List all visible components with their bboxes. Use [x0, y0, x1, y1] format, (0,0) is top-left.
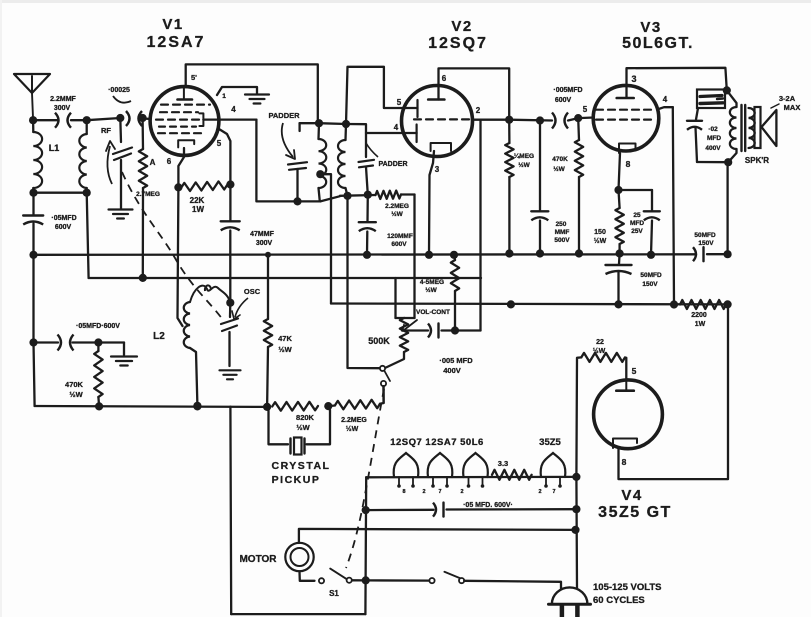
label PADDER IF [366, 143, 408, 168]
dashed switch link [346, 389, 384, 568]
wiper arrow [403, 320, 418, 331]
capacitor .05MFD 600V left [34, 335, 99, 351]
label 4.5MEG halfW [420, 279, 444, 294]
node coil2 bottom [83, 189, 91, 197]
heater 12SQ7 pins [397, 477, 415, 488]
crystal element [291, 438, 305, 455]
node 50MFD bus3 [614, 300, 622, 308]
svg-text:L2: L2 [153, 331, 165, 342]
label tube heaters [390, 437, 484, 448]
wire cap to node [442, 329, 456, 331]
node 25MFD bus1 [647, 251, 655, 259]
resistor 470K V3grid [575, 118, 583, 253]
node quarterMEG bus1 [505, 249, 513, 257]
trimmer RF [106, 118, 132, 209]
label 12SQ7 [428, 35, 488, 52]
svg-text:PADDER: PADDER [268, 111, 300, 120]
wire line2 right [447, 508, 577, 511]
resistor A 2.7MEG [139, 118, 147, 278]
electrode V3 plate [617, 97, 634, 100]
wire IF bottom [340, 194, 376, 197]
label 3-2A MAX [771, 94, 800, 112]
potentiometer 500K [400, 318, 408, 352]
wire tank top to IF [319, 122, 346, 125]
svg-text:5: 5 [217, 139, 222, 148]
wire cap to V1 grid [141, 117, 151, 120]
wire cap to V3 grid [568, 118, 594, 121]
wire V3 pin4 lead [659, 107, 673, 109]
label L2 [153, 331, 165, 342]
node 45MEG bus1 [450, 251, 458, 259]
ground RF trimmer [109, 210, 133, 219]
label pin 6 V2 [442, 74, 447, 83]
wire bus2 AVC [89, 277, 481, 279]
svg-text:35Z5 GT: 35Z5 GT [598, 504, 672, 521]
label pin 2 V2 [476, 106, 481, 115]
label 820K halfW [296, 413, 315, 432]
label pin 8 V3 [626, 159, 631, 169]
label .05MFD 600V line [463, 502, 513, 509]
svg-text:¼MEG: ¼MEG [514, 152, 534, 160]
node V2 cathode bus1 [425, 251, 433, 259]
svg-text:2: 2 [538, 489, 541, 495]
inductor OT secondary [749, 108, 755, 148]
resistor 470K left [94, 343, 102, 407]
label pin 6 [167, 157, 172, 166]
svg-text:·005MFD: ·005MFD [553, 87, 582, 94]
node 47K bottom [263, 403, 271, 411]
svg-text:2: 2 [476, 106, 481, 115]
svg-text:3: 3 [631, 74, 636, 84]
trimmer IF padder [346, 124, 374, 195]
node line2 right [572, 505, 580, 513]
capacitor 47MMF [221, 185, 240, 303]
svg-text:50MFD: 50MFD [694, 232, 716, 239]
svg-text:1W: 1W [695, 321, 706, 328]
svg-text:6: 6 [442, 74, 447, 83]
wire to switch2 [366, 579, 430, 581]
svg-text:VOL-CONT: VOL-CONT [416, 309, 450, 316]
label .005MFD 400V [439, 356, 473, 375]
svg-text:S1: S1 [329, 589, 339, 598]
label PICKUP [272, 474, 321, 486]
wire pin4 route [256, 120, 320, 202]
label .05MFD 600V [51, 215, 76, 231]
node V1 cathode junction [174, 183, 182, 191]
capacitor 25MFD 25V [644, 190, 660, 255]
switch volume lugs [380, 352, 404, 403]
label L1 [49, 143, 60, 153]
label 47K halfW [278, 334, 292, 354]
node bus3 right [724, 300, 732, 308]
wire bus3 B-plus [331, 302, 728, 305]
switch S1 lug1 [319, 578, 324, 583]
label 2.2MEG phono [341, 417, 367, 433]
node 250MMF bus1 [536, 249, 544, 257]
electrode V2 cathode [431, 143, 451, 151]
svg-text:12SQ7 12SA7 50L6: 12SQ7 12SA7 50L6 [390, 437, 484, 448]
wire to RF trimmer [87, 118, 121, 120]
node AVC junction [139, 274, 147, 282]
label pin 3 V3 [631, 74, 636, 84]
grid dashes V1 row5 [158, 132, 205, 134]
electrode V1 plate [178, 87, 193, 100]
node IF sec bottom [343, 192, 351, 200]
label 2.2MEG halfW [385, 203, 409, 218]
electrode V4 plate [616, 381, 634, 391]
node S1 junction [362, 576, 370, 584]
svg-text:7: 7 [552, 489, 555, 495]
node line2 left [362, 506, 370, 514]
svg-text:V4: V4 [621, 487, 642, 504]
svg-text:·05MFD: ·05MFD [51, 215, 76, 222]
inductor L2 [184, 302, 198, 405]
wire V4 plate up [625, 358, 626, 381]
heater 35Z5 pins [544, 477, 562, 488]
label pin 4 V2 [394, 123, 399, 132]
svg-text:22K: 22K [190, 196, 205, 205]
label pin 8 V4 [622, 457, 627, 467]
label 120MMF 600V [387, 233, 413, 248]
label 50MFD 150V upper [694, 232, 716, 247]
resistor 22K [182, 181, 228, 191]
label 22 halfW [593, 339, 606, 355]
svg-text:47MMF: 47MMF [250, 231, 274, 238]
svg-text:2.7MEG: 2.7MEG [136, 191, 160, 198]
label V4 [621, 487, 642, 504]
svg-text:PADDER: PADDER [378, 161, 407, 168]
node 470K bus1 [575, 249, 583, 257]
svg-text:2.2MEG: 2.2MEG [341, 417, 367, 424]
wire bus2 to pot [396, 278, 415, 318]
svg-text:22: 22 [596, 339, 604, 346]
node 820K right [324, 402, 332, 410]
wire switch stem [382, 386, 384, 403]
wire cathode to 25MFD [619, 189, 653, 191]
trimmer padder osc plates [288, 162, 307, 201]
inductor L1 secondary [79, 120, 86, 193]
label CRYSTAL [272, 460, 331, 472]
svg-text:½W: ½W [278, 345, 292, 354]
label V2 [451, 18, 472, 35]
capacitor .005MFD 400V coupling [428, 324, 439, 338]
switch on-off blade [444, 572, 462, 579]
switch S1 blade [330, 569, 346, 579]
trimmer padder osc arrow [282, 123, 295, 159]
node L2 bus [193, 402, 201, 410]
wire V1 pin1 to ground [217, 87, 257, 95]
capacitor .05MFD 600V line [433, 503, 444, 517]
svg-text:25V: 25V [631, 228, 643, 235]
label pin 5 V2 [397, 98, 402, 107]
wire node to diode line [455, 329, 481, 331]
svg-text:500V: 500V [554, 237, 570, 244]
svg-text:8: 8 [622, 457, 627, 467]
grid dashes V2 [414, 118, 470, 120]
node bus1 left end [29, 251, 37, 259]
label V1 [162, 16, 183, 33]
wire V1 plate to top [186, 64, 318, 123]
label pin 4 [231, 105, 236, 114]
wire V3 plate route [627, 68, 727, 97]
svg-text:A: A [150, 158, 156, 167]
trimmer osc [221, 303, 238, 366]
wire IF bottom to vol switch [348, 196, 380, 368]
electrode V1 cathode [178, 140, 194, 147]
svg-text:OSC: OSC [244, 287, 261, 296]
node 150 bus1 [616, 249, 624, 257]
label .005MFD 600V [553, 87, 582, 104]
wire heater bus [366, 476, 576, 479]
resistor 820K [272, 402, 318, 411]
node L1 bottom [29, 189, 37, 197]
grid dashes V1 row4 [159, 125, 196, 127]
wire OT to bus [726, 162, 728, 254]
svg-text:PICKUP: PICKUP [272, 474, 321, 486]
label 25MFD 25V [630, 212, 644, 235]
speaker [755, 107, 777, 148]
svg-text:MAX: MAX [784, 103, 801, 112]
switch S1 lug2 [347, 578, 352, 583]
svg-text:½W: ½W [69, 390, 83, 399]
node 470K bottom [95, 402, 103, 410]
wire bus1 B-minus [34, 253, 697, 256]
wire diode branch down [479, 120, 481, 331]
label 50L6GT [622, 35, 694, 52]
label 2200 1W [691, 312, 707, 328]
label RF [101, 126, 111, 135]
ground osc trimmer [220, 370, 241, 379]
node 120MMF top [364, 191, 372, 199]
node IF sec top [342, 120, 350, 128]
label gimmick [108, 87, 131, 103]
wire line2 [366, 509, 434, 512]
svg-text:2.2MEG: 2.2MEG [385, 203, 409, 210]
svg-text:½W: ½W [425, 286, 437, 294]
wire V3 grid2 down [673, 107, 674, 304]
wire left column down [34, 255, 35, 406]
label .02MFD 400V [705, 126, 721, 152]
node coupling junction [451, 326, 459, 334]
svg-text:·05MFD·600V: ·05MFD·600V [76, 323, 120, 330]
svg-text:·005 MFD: ·005 MFD [439, 356, 473, 365]
node V3 grid [574, 114, 582, 122]
svg-text:250: 250 [556, 221, 567, 228]
resistor 47K [264, 255, 272, 407]
svg-text:3.3: 3.3 [498, 459, 508, 468]
svg-text:470K: 470K [552, 156, 568, 163]
label pin 1 [222, 93, 226, 100]
svg-text:8: 8 [402, 489, 405, 495]
wire V1 pin5 lead [219, 129, 230, 185]
svg-text:½W: ½W [553, 165, 565, 173]
svg-text:·05 MFD. 600V·: ·05 MFD. 600V· [463, 502, 513, 509]
wire bottom return [231, 613, 365, 615]
wire right power vertical [575, 477, 578, 588]
wire V1 pin4 lead [203, 118, 256, 120]
antenna [14, 74, 50, 120]
label 150 halfW [594, 229, 607, 245]
label VOL-CONT [416, 309, 450, 316]
label 2.2MMF 300V [50, 96, 76, 112]
svg-text:RF: RF [101, 126, 111, 135]
node 47K top [265, 252, 271, 258]
label PADDER osc [268, 111, 300, 120]
svg-text:105-125 VOLTS: 105-125 VOLTS [593, 582, 661, 593]
heater pin digits [402, 489, 555, 495]
wire S1 to node [352, 579, 366, 581]
ground detector [111, 357, 137, 366]
svg-text:V1: V1 [162, 16, 183, 33]
svg-text:4: 4 [231, 105, 236, 114]
electrode V4 cathode [613, 439, 637, 449]
wire crystal branch down [229, 407, 232, 614]
svg-text:25: 25 [633, 212, 641, 219]
svg-text:MFD: MFD [630, 220, 644, 227]
svg-text:1: 1 [222, 93, 226, 100]
wire V1 cathode down [178, 187, 183, 326]
svg-text:2200: 2200 [691, 312, 707, 319]
wire V1 cathode lead [178, 148, 184, 187]
wire V2 pin4 lead [366, 132, 417, 134]
wire phono bus [35, 405, 268, 408]
node bus1 right [724, 250, 732, 258]
electrode V2 grid5 [416, 100, 418, 117]
svg-text:L1: L1 [49, 143, 60, 153]
svg-text:MMF: MMF [555, 229, 570, 236]
node cap05 left [29, 338, 37, 346]
node 470K top [94, 338, 102, 346]
svg-text:120MMF: 120MMF [387, 233, 413, 240]
label pin 3 V2 [435, 165, 440, 174]
svg-text:½W: ½W [296, 423, 310, 432]
node osc tank top [315, 119, 323, 127]
inductor OT primary [727, 90, 737, 162]
svg-text:2: 2 [422, 489, 425, 495]
capacitor grid coupling [126, 111, 142, 126]
svg-text:5: 5 [583, 105, 588, 114]
svg-text:·02: ·02 [708, 126, 718, 133]
svg-text:4: 4 [663, 95, 668, 104]
wire V2 pin5 route [346, 67, 418, 124]
heater 50L6 pins [467, 477, 485, 488]
resistor 22 ohm [576, 353, 625, 477]
node padder bottom [293, 197, 301, 205]
svg-text:V3: V3 [640, 19, 661, 36]
resistor 150 ohm [615, 190, 623, 254]
wire wiper to cap [402, 329, 428, 331]
label 47MMF 300V [250, 231, 274, 247]
switch on-off lug1 [429, 578, 434, 583]
svg-text:60 CYCLES: 60 CYCLES [593, 595, 645, 606]
svg-text:47K: 47K [278, 334, 292, 343]
capacitor .005MFD 600V [552, 113, 568, 129]
label 60 CYCLES [593, 595, 645, 606]
svg-text:50L6GT.: 50L6GT. [622, 35, 694, 52]
svg-text:150V: 150V [642, 281, 658, 288]
coil scribble [190, 285, 230, 302]
electrode V1 screen bracket [199, 113, 203, 126]
svg-text:300V: 300V [256, 240, 273, 247]
svg-text:600V: 600V [555, 97, 572, 104]
inductor L1 [33, 120, 42, 193]
node line3 right [571, 526, 579, 534]
svg-text:4: 4 [394, 123, 399, 132]
svg-text:5: 5 [397, 98, 402, 107]
capacitor 50MFD 150V filter [693, 247, 704, 261]
grid dashes V3 row2 [596, 118, 651, 120]
resistor 2200 1W [680, 300, 726, 309]
grid dashes V1 row3 [156, 118, 199, 120]
wire V4 cathode lead [619, 306, 729, 480]
svg-text:½W: ½W [346, 425, 359, 433]
resistor quarter-MEG [505, 120, 513, 254]
svg-text:·00025: ·00025 [108, 87, 130, 94]
svg-text:400V: 400V [705, 145, 721, 152]
svg-text:3-2A: 3-2A [779, 94, 796, 103]
dashed gang line RF-osc [122, 172, 223, 320]
svg-text:MFD: MFD [707, 135, 721, 142]
node grid cap left [139, 114, 147, 122]
heater 12SA7 pins [431, 477, 449, 488]
electrode V2 grid4 [416, 125, 418, 143]
svg-text:150V: 150V [698, 240, 714, 247]
switch on-off lug2 [459, 578, 464, 583]
electrode V2 plate [428, 98, 444, 101]
grid dashes V1 row1 [161, 103, 210, 105]
svg-text:600V: 600V [55, 224, 72, 231]
wire V2 pin2 lead [473, 119, 510, 121]
heater 50L6 [463, 453, 488, 477]
capacitor .05MFD 600V antenna [23, 193, 43, 255]
wire V2 cathode lead [429, 151, 434, 255]
heater 35Z5 [541, 453, 566, 477]
label OSC [232, 287, 261, 319]
svg-text:5: 5 [632, 366, 637, 376]
svg-text:5': 5' [191, 73, 197, 82]
capacitor 250MMF [531, 121, 548, 254]
svg-text:2: 2 [460, 489, 463, 495]
svg-text:7: 7 [438, 489, 441, 495]
svg-text:MOTOR: MOTOR [239, 554, 277, 565]
tube V3 envelope [593, 85, 659, 151]
label 500K [368, 336, 390, 346]
wire bus1 right end [707, 253, 728, 255]
ground V1 pin1 [245, 95, 269, 104]
wire osc bottom jog [320, 196, 340, 201]
label pin 5 V3 [583, 105, 588, 114]
svg-text:CRYSTAL: CRYSTAL [272, 460, 331, 472]
wire switch2 to plug [464, 581, 561, 589]
wire plate to cap [509, 119, 552, 122]
tube V1 envelope [150, 87, 219, 156]
inductor IF secondary [338, 124, 347, 196]
resistor 3.3 heater [492, 470, 532, 480]
wire motor lead [300, 571, 315, 580]
label 3.3 [498, 459, 508, 468]
svg-text:6: 6 [167, 157, 172, 166]
svg-text:2.2MMF: 2.2MMF [50, 96, 76, 103]
svg-text:½W: ½W [593, 347, 606, 355]
node OT top [723, 86, 731, 94]
tube V2 envelope [402, 86, 473, 157]
svg-text:1W: 1W [192, 205, 204, 214]
grid dashes V3 row1 [596, 109, 651, 111]
label SPKR [745, 156, 769, 165]
inductor osc coil [319, 123, 327, 201]
wire osc tap to bus3 [320, 174, 331, 303]
resistor 2.2MEG phono [328, 400, 383, 410]
